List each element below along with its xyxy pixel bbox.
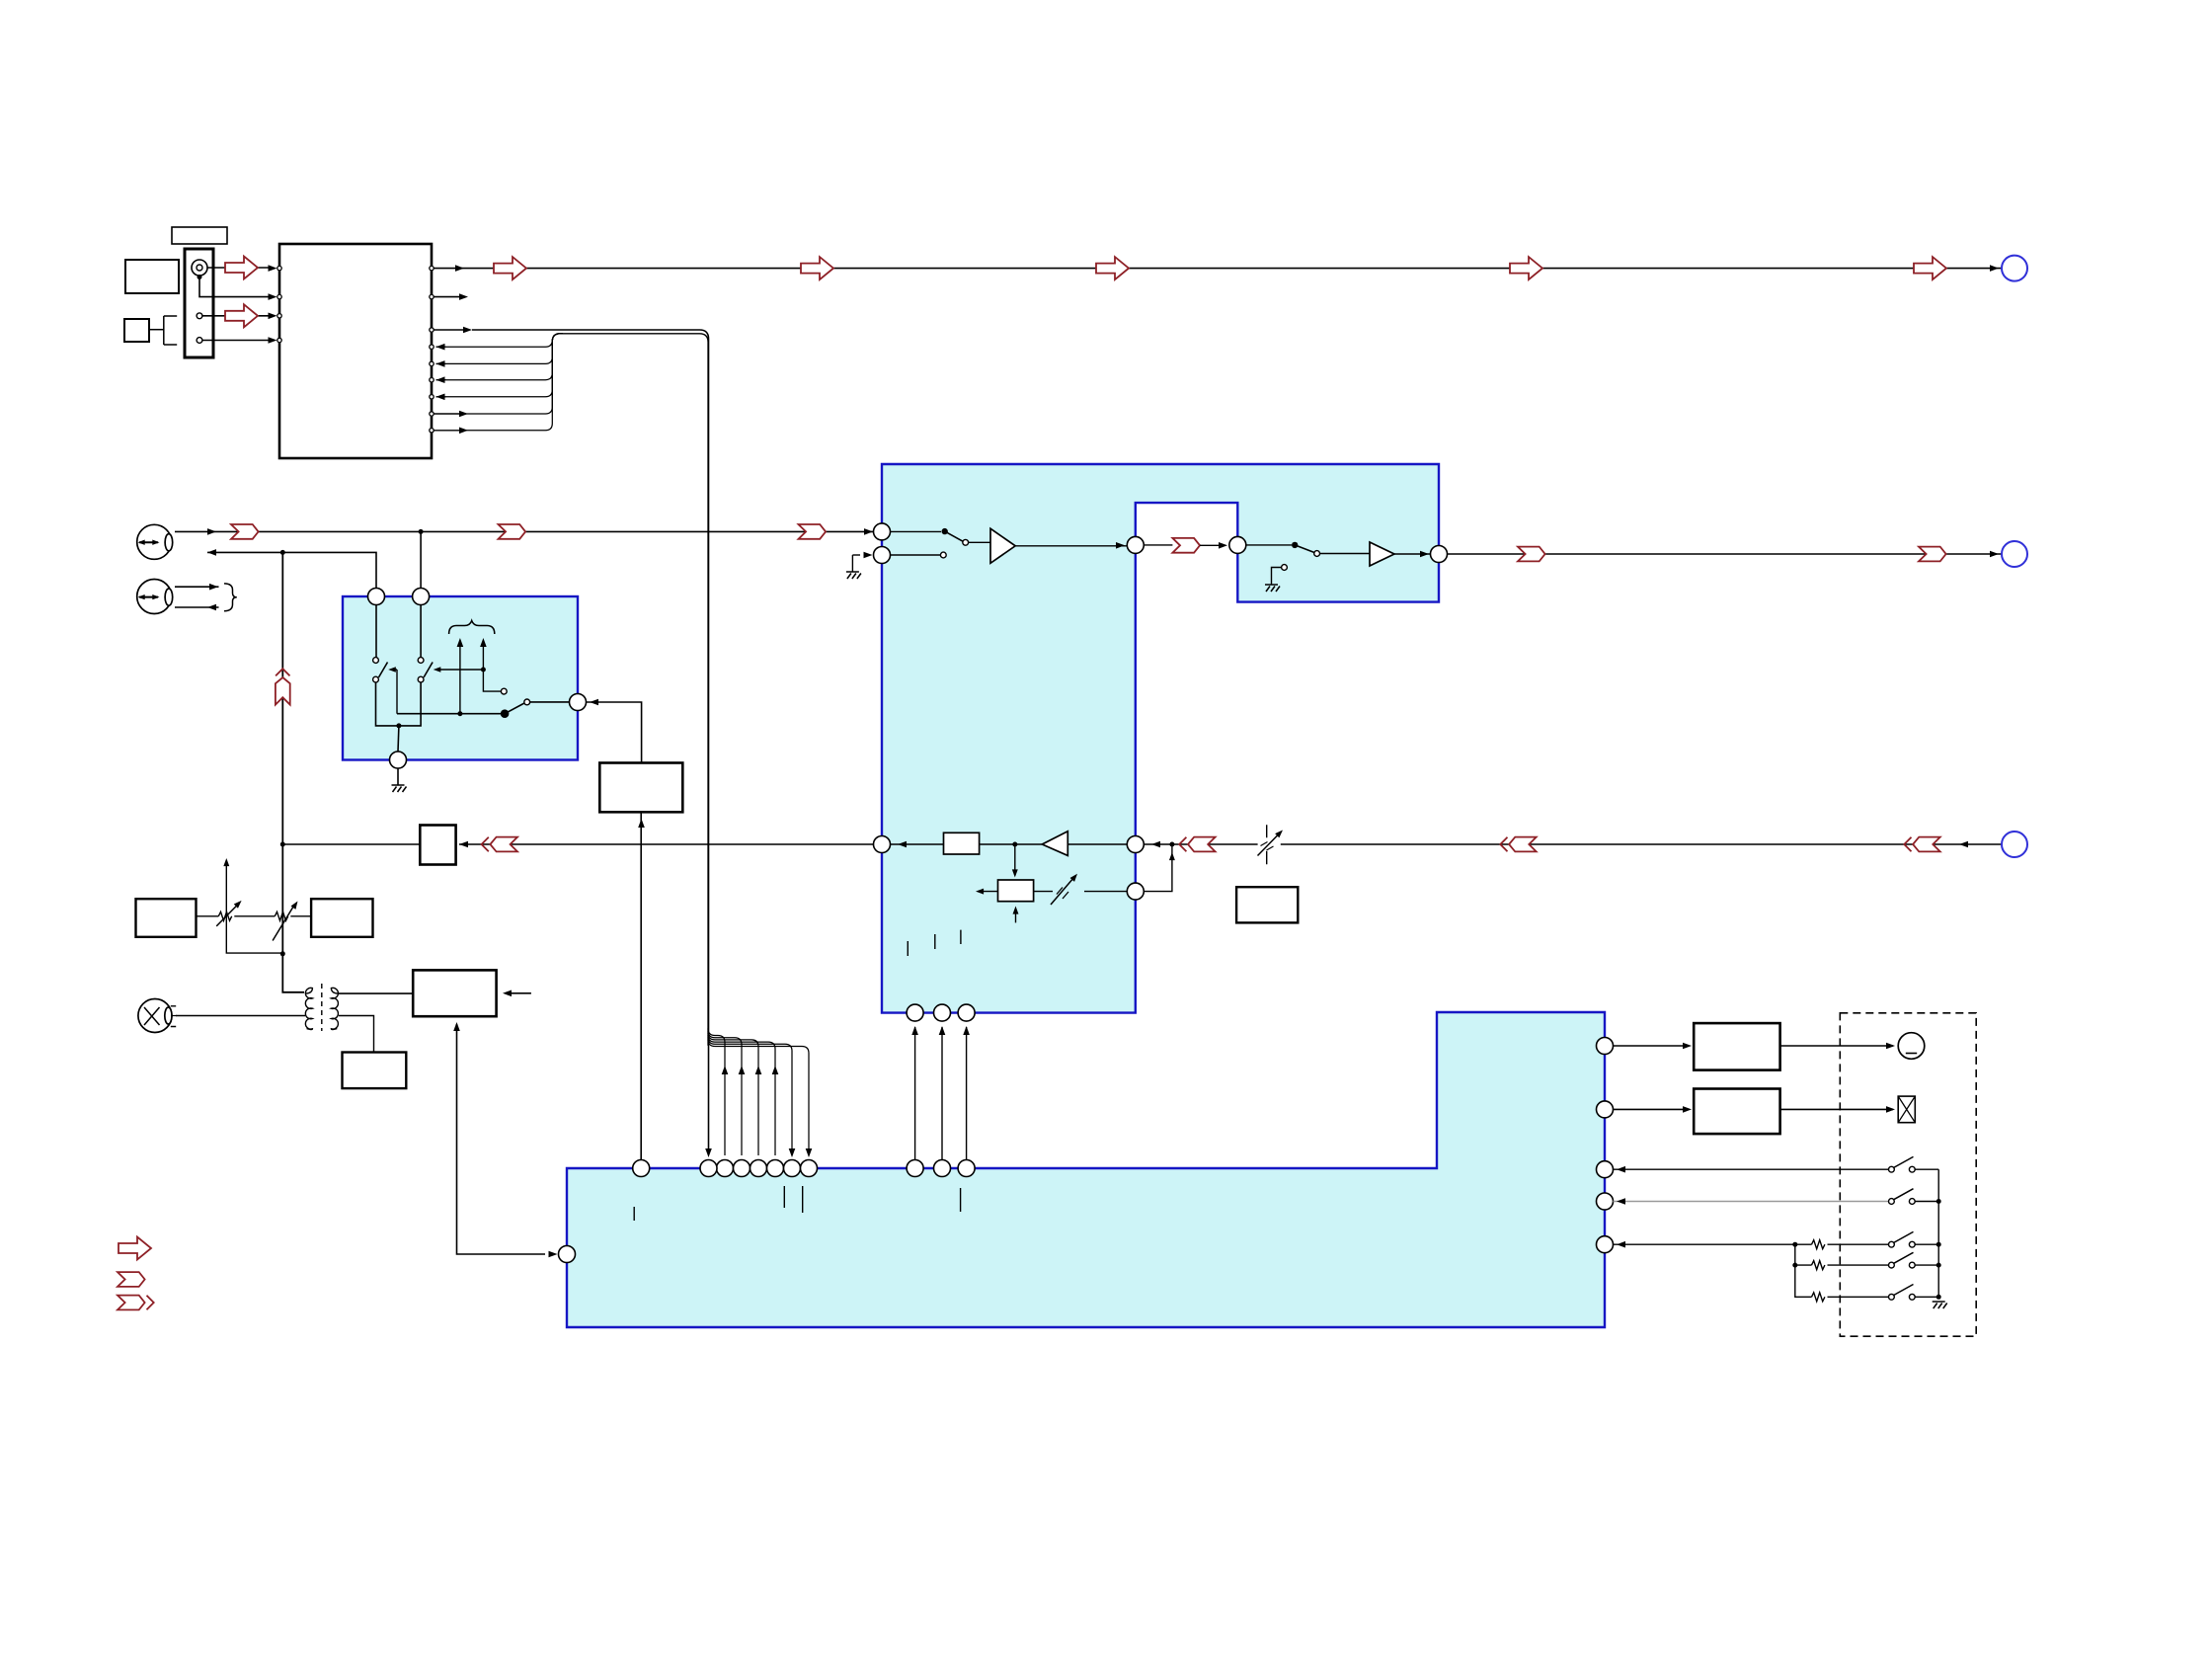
pin SB1 top1 xyxy=(368,589,385,605)
wire riser from att pin xyxy=(1144,844,1172,892)
wire J1 return line xyxy=(207,552,376,588)
attenuator VR3 (variable) xyxy=(1034,891,1053,893)
pin U1 right y=401.8 xyxy=(430,395,434,399)
contact circle CN1 pin3 xyxy=(197,313,202,319)
wire lamp to T1 primary bottom xyxy=(176,1015,305,1017)
ground (dashed box bus) xyxy=(1933,1302,1947,1308)
switch S3 pole xyxy=(501,709,510,718)
block (rec filter) inside U2 xyxy=(944,832,980,854)
arrow symbol (out) on top line x=1110 xyxy=(1096,257,1129,279)
wire SB1 bottom pin to ground xyxy=(397,768,399,785)
resistor R3 xyxy=(1812,1293,1825,1302)
contact circle CN1 pin4 xyxy=(197,338,202,344)
wire box B to solenoid xyxy=(1780,1108,1893,1110)
jack J2 xyxy=(137,580,173,614)
pin U3 top x=649 xyxy=(633,1160,650,1177)
pin U3 top x=819 xyxy=(801,1160,818,1177)
arrow chevron (out) in cutout xyxy=(1172,538,1200,553)
wire junction to S3 throw contact xyxy=(483,670,501,691)
wire U1 pin A to output terminal (top long line) xyxy=(434,268,2002,270)
pin U1 right y=384.7 xyxy=(430,378,434,382)
pin U1 left y=300.6 xyxy=(277,294,281,298)
switch S2 actuation arrow xyxy=(436,669,484,671)
wire switch row y=1260.2 xyxy=(1614,1243,1812,1245)
block (right of VR2) xyxy=(311,899,372,937)
pin U1 left y=344.5 xyxy=(277,338,281,342)
ground (S5 throw) xyxy=(1265,585,1280,592)
arrow chevron (in) x=1528 xyxy=(1500,837,1536,852)
pin SB1 top2 xyxy=(413,589,430,605)
motor M1 xyxy=(1898,1033,1925,1060)
wire RCA center to U1 pin1 xyxy=(207,267,269,269)
pin U1 right y=300.6 xyxy=(430,294,434,298)
wire bus peel to x=785 xyxy=(708,1035,775,1155)
ground (SB1) xyxy=(392,785,407,792)
wire block C to U3 pin xyxy=(640,812,642,1159)
wire U1 pin-bus 5 xyxy=(434,413,460,415)
arrow symbol (out) on top line x=500 xyxy=(494,257,526,279)
wire REC line left segment xyxy=(282,843,420,845)
wire U1 pin-bus 4 xyxy=(436,394,445,401)
legend chevron (out) xyxy=(118,1272,145,1287)
node jack line / switch-box branch xyxy=(419,529,424,534)
switch S1 (left) xyxy=(375,605,377,658)
block U3 system control (cyan polygon) xyxy=(567,1012,1605,1327)
pin U1 left y=319.8 xyxy=(277,314,281,318)
wire S1/S2 lower contacts to bottom pin xyxy=(376,682,422,726)
pin U2 in-R xyxy=(874,547,891,564)
IC U1 (large block) xyxy=(279,244,432,458)
node S2 arrow junction xyxy=(481,668,486,673)
pin U2 bottom x=954 xyxy=(934,1004,951,1021)
resistor VR2 xyxy=(275,911,287,920)
switch contacts row y=1313.3 xyxy=(1889,1294,1895,1300)
pin U3 top x=954 xyxy=(934,1160,951,1177)
pin U2 in-L xyxy=(874,523,891,540)
wire U1 pin-bus 6 xyxy=(434,430,460,432)
switch contacts row y=1216.5 xyxy=(1889,1199,1895,1205)
pin U2 rec-out (left edge) xyxy=(874,836,891,853)
pin U3 top x=802 xyxy=(784,1160,801,1177)
RCA jack symbol on CN1 xyxy=(192,260,207,276)
block B3 (below transformer) xyxy=(343,1053,407,1089)
switch S5 (monitor select) xyxy=(1246,544,1292,546)
amplifier A3 (left pointing) xyxy=(1042,831,1067,856)
wire T1 secondary bottom to block B3 xyxy=(339,1016,374,1053)
wire monitor vertical bus x=286 xyxy=(282,552,304,991)
wire bus peel to x=802 xyxy=(708,1037,792,1155)
wire line-out to terminal xyxy=(1448,553,2003,555)
wire U3 to motor driver box A xyxy=(1614,1045,1690,1047)
arrow chevron (up, double) on monitor bus xyxy=(276,669,290,704)
pin U2 bottom x=978.6 xyxy=(958,1004,975,1021)
wire left bus (dashed box) xyxy=(1795,1244,1812,1297)
bracket connector stub xyxy=(149,316,177,345)
amplifier A1 xyxy=(969,541,990,543)
tick marks inside U3 xyxy=(634,1186,960,1221)
ground (U2 in-R) xyxy=(846,572,861,579)
resistor VR1 xyxy=(218,911,231,920)
wire U2/bottom-block link x=926.6 xyxy=(914,1027,916,1160)
wire S3 throw to SB1 right pin xyxy=(530,701,570,703)
block T (power/control) xyxy=(413,970,496,1016)
pin U3 top x=978.6 xyxy=(958,1160,975,1177)
switch contacts row y=1260.2 xyxy=(1889,1241,1895,1247)
pin U2 out-R edge xyxy=(1431,546,1448,563)
pin U3 top x=717 xyxy=(700,1160,717,1177)
switch S2 (middle) xyxy=(420,605,422,658)
block X (REC mute) xyxy=(420,826,455,865)
wire J2 tip stub xyxy=(175,586,219,588)
wire bus peel to x=734 xyxy=(708,1029,725,1156)
resistor R2 xyxy=(1795,1264,1812,1266)
pin U1 right y=435.8 xyxy=(430,429,434,433)
wire U1 pin C bus line to bottom block xyxy=(434,329,464,331)
legend chevron (double out) xyxy=(118,1296,145,1310)
wire S1 arrow riser to bus xyxy=(396,670,398,714)
wire U1 pin B stub xyxy=(434,296,460,298)
terminal J-OUT2 (blue circle) xyxy=(2002,541,2027,567)
terminal J-REC (blue circle) xyxy=(2002,831,2027,857)
pin U1 left y=271.6 xyxy=(277,266,281,270)
block C (servo) above U3 xyxy=(599,763,682,813)
wire SB1 internal bus xyxy=(397,713,505,715)
tick marks (erased refs) inside U2 xyxy=(908,930,961,956)
wire right bus (dashed box) xyxy=(1937,1169,1939,1297)
arrow symbol (out) on top line x=1938 xyxy=(1914,257,1946,279)
wire att block stubs xyxy=(1014,844,1016,872)
block SB1 function switch (cyan box) xyxy=(343,596,578,760)
node rec line / riser junction xyxy=(1169,842,1174,847)
wire att inside xyxy=(1084,891,1127,893)
wire VR chain xyxy=(197,915,312,917)
block (rec att) inside U2 xyxy=(998,880,1034,902)
pin U1 right y=334 xyxy=(430,328,434,332)
jack J1 (line in/out RCA) xyxy=(137,524,173,559)
arrow chevron (in) x=1937 xyxy=(1904,837,1939,852)
pin U1 right y=368.4 xyxy=(430,361,434,365)
wire bus peel to x=819 xyxy=(708,1040,809,1156)
block (small box lower-left) xyxy=(124,319,149,342)
wire U1 pin-bus 3 xyxy=(436,376,445,383)
wire switch row y=1216.5 (gray) xyxy=(1614,1201,1889,1203)
wire SB1 right pin to block C xyxy=(587,702,642,763)
node rec/att branch xyxy=(1012,842,1017,847)
pin U3 top x=785 xyxy=(767,1160,784,1177)
J1 insert arrow xyxy=(139,541,158,543)
pin U3 right y=1260 xyxy=(1597,1236,1614,1253)
pin U3 top x=734 xyxy=(717,1160,734,1177)
arrow chevron (out) x=808.5 xyxy=(799,524,827,539)
wire A2 out to U2 right pin xyxy=(1394,553,1431,555)
wire U2/bottom-block link x=978.6 xyxy=(966,1027,968,1160)
lamp LP1 xyxy=(138,999,177,1033)
wire A1 out to cutout pin xyxy=(1015,545,1127,547)
pin U1 right y=419 xyxy=(430,412,434,416)
wire switch row y=1184.2 xyxy=(1614,1168,1889,1170)
arrow chevron (in) x=1203 xyxy=(1179,837,1215,852)
pin U3 right y=1216 xyxy=(1597,1193,1614,1210)
wire branch down to switch box pin2 xyxy=(420,531,422,588)
transformer T1 xyxy=(305,984,338,1031)
amplifier A2 xyxy=(1320,553,1371,555)
resistor R1 xyxy=(1812,1240,1825,1249)
wire J2 sleeve stub xyxy=(175,606,219,608)
wire CN1 pin3 to U1 pin3 xyxy=(202,315,269,317)
legend arrow (block) xyxy=(118,1237,151,1260)
arrow chevron (out) x=1943 xyxy=(1919,547,1946,562)
wire rec line right segment to terminal xyxy=(1172,843,2002,845)
wire bus peel to x=751 xyxy=(708,1031,742,1155)
arrow symbol (out) on top line x=1529 xyxy=(1510,257,1542,279)
arrow symbol (out) on top line x=811 xyxy=(801,257,833,279)
arrow chevron (out) x=234 xyxy=(231,524,259,539)
overbrace xyxy=(449,621,495,635)
label box (top-left small rectangle) xyxy=(172,227,227,244)
wire U1 pin-bus 1 xyxy=(436,344,445,351)
pin U2 cutout-L xyxy=(1127,536,1144,553)
wire box A to motor xyxy=(1780,1045,1893,1047)
wire bus peel to x=768 xyxy=(708,1033,758,1155)
transformer core xyxy=(321,984,323,1031)
block A (motor driver) xyxy=(1694,1023,1779,1070)
arrow chevron (out) x=1537 xyxy=(1518,547,1545,562)
node return/monitor branch xyxy=(280,550,285,555)
block U2 audio board (cyan polygon) xyxy=(882,464,1439,1013)
wire U3 to solenoid driver box B xyxy=(1614,1108,1690,1110)
arrow chevron (in) on REC line x=496 xyxy=(482,837,517,852)
arrow chevron (out) x=504.5 xyxy=(499,524,526,539)
pin U3 top x=926.6 xyxy=(907,1160,923,1177)
pin U3 right y=1123 xyxy=(1597,1101,1614,1118)
cable brace at J2 xyxy=(224,584,237,611)
block (left of VR1) xyxy=(136,899,197,937)
pin U3 right y=1059 xyxy=(1597,1038,1614,1055)
pin U2 att (right edge lower) xyxy=(1127,883,1144,900)
ground stub on in-R xyxy=(851,555,853,572)
arrow symbol (in) on RCA line xyxy=(225,257,258,279)
wire cutout crossover xyxy=(1144,544,1225,546)
wire stub into block T right xyxy=(506,992,531,994)
wire U1 pin-bus 2 xyxy=(436,360,445,367)
wire rec path inside U2 xyxy=(891,843,944,845)
switch contacts row y=1281.1 xyxy=(1889,1262,1895,1268)
wire T1 secondary top to block T xyxy=(339,992,413,994)
block (box left of CN1) xyxy=(125,260,179,293)
pin SB1 right xyxy=(570,694,587,711)
connector CN1 (vertical thick rectangle) xyxy=(185,249,213,357)
attenuator VR4 (in line) xyxy=(1258,825,1281,864)
pin U3 right y=1184 xyxy=(1597,1161,1614,1178)
terminal J-OUT1 (blue circle) xyxy=(2002,256,2027,281)
pin U3 left xyxy=(559,1246,576,1263)
switch S1 actuation arrow xyxy=(391,669,397,671)
pin U2 rec-in (right edge of column) xyxy=(1127,836,1144,853)
wire RCA shield down and to U1 pin2 xyxy=(199,277,269,297)
pin U1 right y=351.2 xyxy=(430,345,434,349)
wire bus bundle trunk xyxy=(561,334,708,1046)
node monitor/REC branch xyxy=(280,842,285,847)
wire U2/bottom-block link x=954 xyxy=(941,1027,943,1160)
node: RCA shield dot xyxy=(197,275,202,279)
pin U3 top x=751 xyxy=(734,1160,750,1177)
pin U2 bottom x=926.6 xyxy=(907,1004,923,1021)
wire block T bottom to bottom block left pin xyxy=(457,1024,546,1254)
block (stand-alone box right of U2) xyxy=(1236,887,1298,922)
switch S4 (input select) xyxy=(891,530,941,532)
node monitor/VR wiper branch xyxy=(280,951,285,956)
wire REC line box X to central block xyxy=(459,843,876,845)
wire J1 hot to central block pin1 xyxy=(175,530,876,532)
pin U1 right y=271.6 xyxy=(430,266,434,270)
pin U2 cutout-R xyxy=(1229,536,1246,553)
dashed box (switch block) xyxy=(1840,1013,1976,1336)
block B (solenoid driver) xyxy=(1694,1089,1779,1135)
wire CN1 pin4 to U1 pin4 xyxy=(202,340,269,342)
pin SB1 bottom xyxy=(390,752,407,768)
pin U3 top x=768 xyxy=(750,1160,767,1177)
wire VR1 wiper xyxy=(226,864,282,953)
arrow symbol (in) on pin3 line xyxy=(225,304,258,327)
solenoid (crossed box) xyxy=(1898,1096,1915,1123)
switch contacts row y=1184.2 xyxy=(1889,1166,1895,1172)
wire up-arrow 2 xyxy=(482,642,484,670)
wire up-arrow 1 (record select) xyxy=(459,642,461,714)
S5 lower throw with ground xyxy=(1282,565,1288,571)
J2 insert arrow xyxy=(139,596,158,598)
